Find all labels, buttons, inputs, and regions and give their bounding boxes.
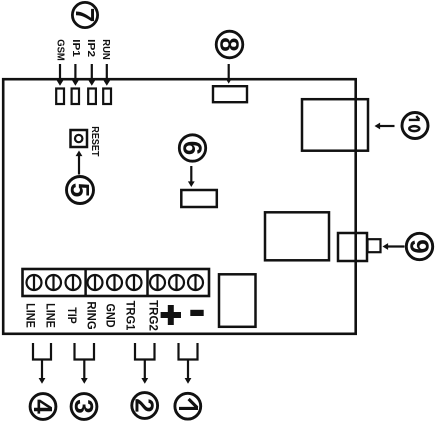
arrow to LED GSM [57, 64, 64, 86]
svg-text:8: 8 [215, 37, 245, 51]
callout circle 7 [70, 2, 100, 27]
svg-text:RESET: RESET [89, 126, 100, 156]
svg-text:GND: GND [104, 303, 118, 327]
callout circle 2 [130, 393, 160, 419]
power jack 9 [338, 233, 381, 261]
svg-text:RING: RING [85, 301, 99, 329]
bracket 1 [179, 343, 198, 360]
LED IP2 [88, 89, 96, 105]
connector 8 [213, 86, 247, 102]
svg-text:5: 5 [65, 183, 95, 197]
svg-text:4: 4 [28, 399, 58, 414]
svg-text:2: 2 [130, 398, 160, 412]
bracket 2 [135, 343, 155, 360]
LED GSM [56, 89, 64, 105]
svg-text:LINE: LINE [23, 303, 37, 328]
svg-text:TIP: TIP [65, 307, 79, 324]
screw terminal TRG2 [150, 275, 165, 290]
connector 6 [181, 190, 217, 207]
LED RUN [103, 89, 111, 105]
screw terminal plus [169, 275, 184, 290]
screw terminal minus [188, 275, 203, 290]
callout circle 3 [69, 394, 99, 420]
svg-text:IP2: IP2 [85, 39, 96, 57]
svg-text:GSM: GSM [54, 39, 65, 61]
arrow to LED IP2 [88, 64, 95, 86]
callout circle 6 [178, 135, 208, 161]
relay K1 [219, 274, 256, 327]
antenna connector 10 [302, 99, 368, 151]
bracket 4 [33, 343, 51, 360]
pushbutton RESET [71, 130, 88, 147]
callout circle 10 [402, 113, 428, 139]
terminal block outline [23, 269, 210, 296]
arrow to LED RUN [103, 64, 110, 86]
svg-text:7: 7 [70, 8, 100, 22]
terminal block divider 1 [84, 269, 87, 296]
screw terminal TIP [66, 275, 81, 290]
screw terminal TRG1 [127, 275, 142, 290]
svg-text:LINE: LINE [43, 303, 57, 328]
label plus [161, 305, 181, 325]
svg-text:TRG1: TRG1 [123, 301, 137, 331]
arrow to LED IP1 [72, 64, 79, 86]
svg-text:9: 9 [405, 239, 435, 253]
svg-text:RUN: RUN [100, 39, 111, 60]
svg-text:3: 3 [69, 399, 99, 413]
arrow to RESET [76, 151, 83, 175]
arrow to 4 [39, 360, 46, 384]
svg-text:IP1: IP1 [70, 39, 81, 57]
svg-text:TRG2: TRG2 [147, 300, 161, 331]
screw terminal LINE a [27, 275, 42, 290]
callout circle 1 [175, 393, 201, 419]
label minus [190, 310, 203, 316]
screw terminal GND [107, 275, 122, 290]
arrow to 1 [185, 360, 192, 384]
arrow from 6 [188, 166, 195, 187]
callout circle 9 [405, 233, 435, 259]
arrow from 9 [383, 243, 405, 250]
arrow from 8 [225, 64, 232, 84]
screw terminal RING [88, 275, 103, 290]
arrow to 3 [81, 360, 88, 384]
arrow from 10 [375, 123, 395, 130]
terminal block divider 2 [146, 269, 149, 296]
callout circle 5 [65, 177, 95, 204]
svg-text:6: 6 [178, 141, 208, 155]
callout circle 8 [215, 31, 245, 58]
bracket 3 [75, 343, 95, 360]
board outline [3, 79, 356, 334]
arrow to 2 [141, 360, 148, 384]
module U1 [265, 212, 329, 260]
callout circle 4 [28, 394, 58, 420]
screw terminal LINE b [46, 275, 61, 290]
LED IP1 [72, 89, 79, 105]
